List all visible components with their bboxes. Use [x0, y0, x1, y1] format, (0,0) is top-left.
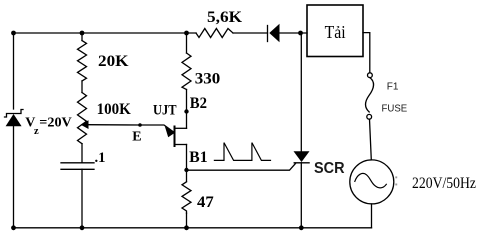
- wire 330 to B2 node: [186, 90, 188, 129]
- svg-text:=20V: =20V: [39, 116, 72, 131]
- junction node top-left: [11, 31, 16, 36]
- UJT B1 lead: [175, 144, 187, 146]
- svg-text:F1: F1: [387, 81, 399, 92]
- potentiometer wiper arrow: [81, 120, 89, 129]
- svg-text:UJT: UJT: [153, 103, 177, 119]
- node B1 dot: [184, 168, 188, 172]
- svg-text:B2: B2: [190, 95, 207, 112]
- resistor 47 zigzag: [182, 182, 191, 213]
- svg-text:B1: B1: [189, 149, 208, 166]
- AC source circle: [350, 160, 394, 204]
- capacitor C .1 bottom plate: [61, 168, 94, 170]
- svg-text:220V/50Hz: 220V/50Hz: [412, 175, 476, 192]
- wire left rail lower: [13, 126, 15, 228]
- wire branch2 top: [81, 33, 83, 41]
- svg-text:SCR: SCR: [314, 160, 345, 177]
- svg-text:100K: 100K: [97, 101, 132, 118]
- svg-text:20K: 20K: [98, 53, 129, 70]
- junction node bottom-left: [11, 225, 16, 230]
- svg-text:z: z: [34, 126, 39, 137]
- UJT B2 lead: [175, 127, 187, 129]
- pulse waveform sketch: [214, 143, 270, 161]
- SCR anode wire: [300, 33, 302, 151]
- wire bottom rail: [14, 227, 372, 229]
- wire left rail: [13, 33, 15, 109]
- wire wiper to E: [88, 124, 140, 126]
- wire 47 to bottom rail: [186, 213, 188, 228]
- AC source sine wave: [355, 173, 387, 187]
- node E dot: [138, 123, 142, 127]
- wire load box to fuse: [363, 33, 370, 73]
- resistor 100K zigzag (potentiometer body): [78, 93, 87, 144]
- junction node bottom branch2: [80, 225, 85, 230]
- junction node top branch2: [80, 31, 85, 36]
- junction node SCR anode: [298, 31, 303, 36]
- resistor 20K zigzag: [78, 41, 87, 82]
- wire branch2 to capacitor: [81, 144, 83, 163]
- node B2 dot: [184, 109, 188, 113]
- svg-text:FUSE: FUSE: [382, 102, 408, 114]
- junction node bottom branch3: [184, 225, 189, 230]
- fuse F1 bottom terminal circle: [367, 114, 372, 119]
- wire branch3 top: [186, 33, 188, 53]
- wire capacitor to bottom rail: [81, 169, 83, 228]
- SCR cathode bar: [294, 162, 309, 164]
- wire E to UJT emitter: [140, 125, 174, 133]
- capacitor C .1 top plate: [61, 162, 94, 164]
- svg-text:.1: .1: [95, 150, 106, 166]
- wire diode to load node: [280, 32, 308, 34]
- svg-text:5,6K: 5,6K: [207, 9, 243, 26]
- artifact colon near source: [395, 176, 397, 178]
- junction node SCR cathode bottom: [299, 225, 304, 230]
- wire gate node to 47: [186, 170, 188, 182]
- fuse F1 top terminal circle: [368, 73, 373, 78]
- svg-text:330: 330: [195, 70, 221, 87]
- zener diode VZ cathode bar: [5, 110, 24, 118]
- wire source to bottom rail: [371, 204, 373, 228]
- SCR triangle: [294, 151, 310, 162]
- svg-text:47: 47: [197, 194, 214, 211]
- wire between 20K and 100K: [81, 81, 83, 93]
- svg-text:Tải: Tải: [325, 22, 346, 42]
- junction node top branch3: [184, 31, 189, 36]
- UJT emitter arrowhead: [165, 126, 175, 137]
- resistor 5,6K zigzag (horizontal): [196, 29, 233, 38]
- wire top rail left segment: [14, 32, 197, 34]
- svg-text:E: E: [132, 129, 141, 144]
- UJT base bar: [174, 127, 176, 147]
- wire fuse to source: [370, 119, 372, 160]
- wire gate to SCR: [187, 163, 296, 170]
- wire B1 down to gate node: [186, 145, 188, 171]
- zener diode VZ triangle: [6, 114, 22, 126]
- diode D1 cathode bar: [267, 26, 269, 42]
- diode D1 triangle: [269, 24, 279, 42]
- load box Tai: [307, 5, 363, 57]
- wire 5,6K to diode: [233, 32, 268, 34]
- SCR cathode wire: [300, 163, 302, 228]
- resistor 330 zigzag: [182, 53, 191, 90]
- fuse F1 s-curve: [366, 78, 374, 112]
